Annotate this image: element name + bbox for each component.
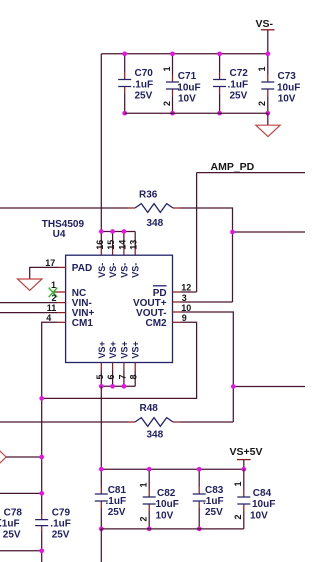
pin 13 lead [134,232,136,248]
resistor R36 [128,190,180,229]
svg-text:2: 2 [257,101,267,106]
wire AMP_PD [197,172,305,174]
capacitor C83 [193,469,224,529]
wire C81 tail [100,529,102,562]
svg-text:VS+: VS+ [119,341,129,358]
svg-text:C71: C71 [178,71,197,82]
junction VOUT+ tap [230,230,235,235]
svg-text:1: 1 [162,66,172,71]
junction C70 top [122,51,127,56]
pin 14 lead [123,232,125,248]
svg-text:CM1: CM1 [72,318,94,329]
wire CM2 [42,322,197,398]
svg-text:25V: 25V [205,507,223,518]
svg-text:15: 15 [106,240,116,250]
svg-text:VS-: VS- [256,18,274,30]
wire off-page to CM [6,456,42,458]
svg-text:10V: 10V [156,510,174,521]
svg-text:8: 8 [129,374,139,379]
junction C72 top [217,51,222,56]
junction C81 top [99,467,104,472]
junction C83 top [197,467,202,472]
svg-text:16: 16 [95,240,105,250]
wire VS+5V drop [243,460,245,470]
svg-text:C83: C83 [205,485,224,496]
wire R48 left [0,421,128,423]
junction CM [39,396,44,401]
svg-text:.1uF: .1uF [0,519,20,530]
svg-text:VS-: VS- [131,263,141,278]
svg-text:C78: C78 [4,508,23,519]
power symbol VS+5V [230,446,263,460]
wire R36 to VOUT+ [180,208,233,302]
junction C82 top [147,467,152,472]
junction C72 bottom [217,111,222,116]
svg-text:10uF: 10uF [252,499,275,510]
svg-text:.1uF: .1uF [228,79,249,90]
junction left stub [39,491,44,496]
capacitor C73 [257,54,300,113]
wire top pin rail [101,231,135,233]
capacitor C70 [118,54,153,113]
wire VS+ down [100,386,102,486]
svg-text:1: 1 [257,66,267,71]
svg-text:2: 2 [233,514,243,519]
junction C71 top [170,51,175,56]
junction pin15 [110,229,115,234]
wire pin12 [181,291,197,293]
svg-text:10uF: 10uF [177,82,200,93]
power symbol VS- [256,18,275,30]
pin 10 VOUT- [173,311,181,313]
svg-text:2: 2 [162,101,172,106]
svg-text:10uF: 10uF [277,82,300,93]
pin 12 PD [173,291,181,293]
svg-text:VS+: VS+ [97,341,107,358]
svg-text:10V: 10V [278,94,296,105]
capacitor C84 [233,469,275,529]
svg-text:9: 9 [182,313,187,323]
svg-text:VS+: VS+ [108,341,118,358]
resistor R48 [128,403,180,441]
wire bottom pin rail [101,385,135,387]
junction C71 bottom [170,111,175,116]
wire top VS- bus [101,53,267,55]
capacitor C72 [213,54,248,113]
junction pin14 [122,229,127,234]
wire pin12 riser [196,173,198,292]
svg-text:25V: 25V [135,91,153,102]
svg-text:4: 4 [46,313,51,323]
svg-text:17: 17 [45,258,55,268]
svg-text:.1uF: .1uF [203,496,224,507]
svg-text:.1uF: .1uF [106,496,127,507]
wire feedback left R36 [0,207,128,209]
pin 5 lead [100,363,102,371]
wire bottom rail of VS+ caps [101,528,244,530]
capacitor C78 [0,508,22,541]
svg-text:25V: 25V [230,91,248,102]
capacitor C71 [162,54,201,113]
ground GND top-right [256,125,280,136]
svg-text:25V: 25V [52,530,70,541]
junction pin16 [99,229,104,234]
pin 9 CM2 [173,321,181,323]
svg-text:PAD: PAD [72,263,92,274]
svg-text:348: 348 [147,218,164,229]
wire VS+5V bus [101,468,244,470]
pin 15 lead [112,232,114,248]
svg-text:10V: 10V [250,510,268,521]
svg-text:C70: C70 [135,68,154,79]
svg-text:VS+5V: VS+5V [230,446,263,458]
pin 8 lead [134,363,136,371]
svg-text:10uF: 10uF [156,499,179,510]
junction C82 bottom [147,527,152,532]
svg-text:10V: 10V [178,94,196,105]
junction pin5 [99,384,104,389]
junction C81 bottom [99,527,104,532]
wire bottom rail of VS- caps [125,112,268,114]
junction VS+5V stub [241,467,246,472]
svg-text:C73: C73 [278,71,297,82]
svg-text:VS-: VS- [108,263,118,278]
svg-text:2: 2 [138,516,148,521]
svg-text:1: 1 [51,280,56,290]
junction C79 bottom [39,548,44,553]
wire CM1 down [42,322,58,514]
junction C83 bottom [197,527,202,532]
wire VOUT+ tap to edge [233,231,306,233]
capacitor C81 [95,485,127,529]
wire pin3 [181,301,233,303]
junction C73 top [265,51,270,56]
pin 4 CM1 [58,321,66,323]
svg-text:CM2: CM2 [145,318,167,329]
pin 1 NC [53,291,66,293]
pin 17 PAD [58,266,66,268]
svg-text:14: 14 [117,240,127,250]
svg-text:R36: R36 [139,190,158,201]
junction C73 bottom [265,111,270,116]
pin 11 VIN+ [58,312,66,314]
wire VOUT- [181,312,234,422]
wire bottom left rail [0,550,42,552]
junction pin6 [110,384,115,389]
pin 7 lead [123,363,125,371]
no-connect X pin1 [49,288,58,298]
svg-text:13: 13 [129,240,139,250]
wire ground drop [267,113,269,125]
svg-text:C81: C81 [108,485,127,496]
capacitor C82 [138,469,178,529]
pin 6 lead [112,363,114,371]
svg-text:1: 1 [233,481,243,486]
svg-text:1: 1 [138,482,148,487]
svg-text:12: 12 [181,283,191,293]
op-amp U4 THS4509 [42,219,173,363]
svg-text:C79: C79 [52,508,71,519]
wire VIN+ [0,312,58,314]
svg-text:VS-: VS- [119,263,129,278]
svg-text:.1uF: .1uF [50,519,71,530]
svg-text:C82: C82 [157,488,176,499]
wire pin17 to ground [30,267,58,279]
pin 2 VIN- [58,302,66,304]
svg-text:6: 6 [106,374,116,379]
junction pin7 [122,384,127,389]
svg-text:11: 11 [47,303,57,313]
wire VS- drop [267,30,269,54]
svg-text:R48: R48 [140,403,159,414]
wire left stub mid [0,492,42,494]
svg-text:7: 7 [117,374,127,379]
svg-text:C84: C84 [253,488,272,499]
wire VOUT- tap to edge [233,386,305,388]
svg-text:25V: 25V [3,530,21,541]
pin 16 lead [100,232,102,248]
svg-text:348: 348 [147,430,164,441]
pin 3 VOUT+ [173,301,181,303]
svg-text:U4: U4 [53,229,66,240]
wire left vertical VS- [100,54,102,232]
svg-text:VS-: VS- [97,263,107,278]
svg-text:VS+: VS+ [131,341,141,358]
junction off-page [39,455,44,460]
junction VOUT- tap [231,384,236,389]
svg-text:AMP_PD: AMP_PD [211,161,255,173]
ground GND left [18,279,43,290]
svg-text:C72: C72 [230,68,249,79]
capacitor C79 [35,508,71,562]
wire R48 right [180,421,233,423]
svg-text:.1uF: .1uF [133,79,154,90]
off-page connector [0,449,6,464]
svg-text:25V: 25V [108,507,126,518]
svg-text:5: 5 [95,374,105,379]
wire VIN- [0,302,58,304]
svg-text:2: 2 [52,293,57,303]
junction C70 bottom [122,111,127,116]
